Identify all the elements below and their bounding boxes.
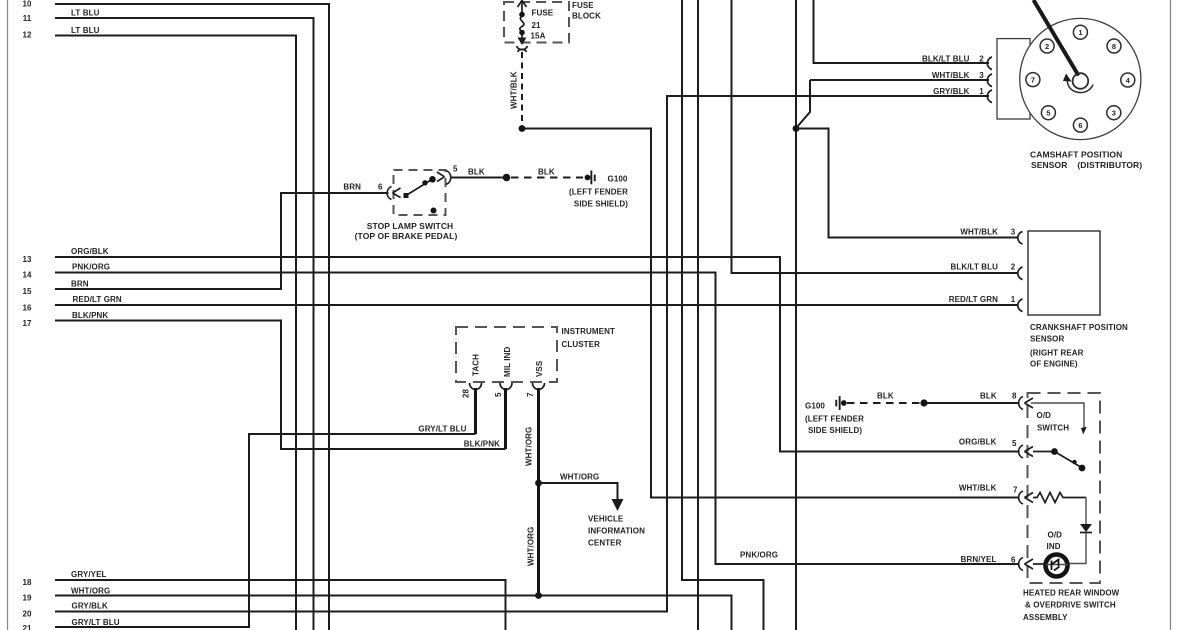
svg-text:OF ENGINE): OF ENGINE)	[1030, 360, 1078, 369]
svg-text:ORG/BLK: ORG/BLK	[71, 247, 109, 256]
svg-text:HEATED REAR WINDOW: HEATED REAR WINDOW	[1023, 589, 1120, 598]
svg-text:GRY/BLK: GRY/BLK	[72, 602, 109, 611]
svg-text:10: 10	[23, 0, 32, 9]
svg-text:O/D: O/D	[1037, 411, 1052, 420]
svg-text:VEHICLE: VEHICLE	[588, 515, 624, 524]
svg-text:13: 13	[23, 255, 32, 264]
svg-text:18: 18	[23, 578, 32, 587]
svg-text:5: 5	[1012, 439, 1017, 448]
svg-text:GRY/LT BLU: GRY/LT BLU	[72, 618, 120, 627]
svg-text:14: 14	[23, 271, 32, 280]
svg-text:5: 5	[494, 392, 503, 397]
svg-text:INSTRUMENT: INSTRUMENT	[562, 327, 615, 336]
svg-text:& OVERDRIVE SWITCH: & OVERDRIVE SWITCH	[1025, 601, 1116, 610]
svg-text:VSS: VSS	[535, 360, 544, 377]
svg-text:5: 5	[453, 165, 458, 174]
svg-text:O/D: O/D	[1048, 531, 1063, 540]
svg-text:17: 17	[23, 319, 32, 328]
svg-text:7: 7	[526, 392, 535, 397]
svg-text:3: 3	[979, 71, 984, 80]
svg-text:GRY/YEL: GRY/YEL	[71, 570, 107, 579]
svg-text:1: 1	[979, 87, 984, 96]
svg-text:FUSE: FUSE	[532, 9, 554, 18]
svg-text:SIDE SHIELD): SIDE SHIELD)	[574, 200, 628, 209]
svg-text:20: 20	[23, 610, 32, 619]
svg-text:15A: 15A	[531, 32, 546, 41]
svg-text:WHT/BLK: WHT/BLK	[510, 71, 519, 109]
svg-text:FUSE: FUSE	[572, 1, 594, 10]
svg-text:GRY/BLK: GRY/BLK	[933, 87, 970, 96]
svg-text:CENTER: CENTER	[588, 539, 622, 548]
svg-text:BLK/PNK: BLK/PNK	[72, 311, 108, 320]
svg-text:7: 7	[1013, 486, 1018, 495]
svg-text:ASSEMBLY: ASSEMBLY	[1023, 613, 1068, 622]
svg-text:RED/LT GRN: RED/LT GRN	[73, 295, 122, 304]
svg-text:CLUSTER: CLUSTER	[562, 340, 601, 349]
svg-text:BLK/PNK: BLK/PNK	[464, 440, 500, 449]
svg-text:WHT/BLK: WHT/BLK	[932, 71, 970, 80]
svg-text:21: 21	[23, 624, 32, 630]
svg-text:CRANKSHAFT POSITION: CRANKSHAFT POSITION	[1030, 323, 1128, 332]
svg-text:WHT/BLK: WHT/BLK	[959, 484, 997, 493]
svg-text:(LEFT FENDER: (LEFT FENDER	[569, 188, 628, 197]
svg-text:PNK/ORG: PNK/ORG	[72, 263, 110, 272]
svg-text:INFORMATION: INFORMATION	[588, 527, 645, 536]
svg-text:SENSOR (DISTRIBUTOR): SENSOR (DISTRIBUTOR)	[1031, 160, 1142, 170]
svg-text:7: 7	[1031, 75, 1035, 84]
svg-text:BRN/YEL: BRN/YEL	[961, 555, 997, 564]
svg-text:MIL IND: MIL IND	[503, 347, 512, 377]
svg-text:2: 2	[1045, 42, 1049, 51]
svg-text:2: 2	[1011, 263, 1016, 272]
svg-text:8: 8	[1012, 392, 1017, 401]
svg-text:3: 3	[1011, 228, 1016, 237]
svg-text:BLK: BLK	[468, 168, 485, 177]
svg-text:6: 6	[1078, 121, 1082, 130]
svg-text:BLK: BLK	[538, 168, 555, 177]
svg-text:LT BLU: LT BLU	[71, 9, 100, 18]
svg-text:11: 11	[23, 14, 32, 23]
svg-text:6: 6	[1011, 556, 1016, 565]
svg-text:LT BLU: LT BLU	[71, 26, 100, 35]
svg-text:BRN: BRN	[71, 279, 89, 288]
svg-text:BLK: BLK	[980, 392, 997, 401]
svg-text:SIDE SHIELD): SIDE SHIELD)	[808, 426, 862, 435]
svg-text:21: 21	[532, 21, 542, 30]
svg-text:15: 15	[23, 287, 32, 296]
svg-text:6: 6	[378, 183, 383, 192]
svg-text:1: 1	[1011, 295, 1016, 304]
svg-text:TACH: TACH	[472, 354, 481, 376]
svg-text:1: 1	[1078, 28, 1082, 37]
svg-text:WHT/ORG: WHT/ORG	[525, 427, 534, 466]
svg-text:PNK/ORG: PNK/ORG	[740, 551, 778, 560]
svg-text:8: 8	[1112, 42, 1116, 51]
svg-text:(TOP OF BRAKE PEDAL): (TOP OF BRAKE PEDAL)	[355, 231, 458, 241]
svg-text:STOP LAMP SWITCH: STOP LAMP SWITCH	[367, 221, 454, 231]
svg-text:12: 12	[23, 31, 32, 40]
svg-text:(LEFT FENDER: (LEFT FENDER	[805, 415, 864, 424]
svg-text:RED/LT GRN: RED/LT GRN	[949, 295, 998, 304]
svg-text:3: 3	[1112, 109, 1116, 118]
svg-text:WHT/ORG: WHT/ORG	[527, 527, 536, 566]
svg-text:BLOCK: BLOCK	[572, 12, 601, 21]
svg-text:G100: G100	[608, 175, 628, 184]
svg-text:16: 16	[23, 304, 32, 313]
svg-text:ORG/BLK: ORG/BLK	[959, 438, 997, 447]
svg-text:WHT/ORG: WHT/ORG	[560, 473, 599, 482]
svg-text:19: 19	[23, 594, 32, 603]
svg-text:WHT/ORG: WHT/ORG	[71, 587, 110, 596]
svg-text:GRY/LT BLU: GRY/LT BLU	[418, 425, 466, 434]
svg-text:BLK/LT BLU: BLK/LT BLU	[922, 55, 970, 64]
svg-text:WHT/BLK: WHT/BLK	[960, 228, 998, 237]
svg-text:IND: IND	[1047, 542, 1061, 551]
svg-text:SWITCH: SWITCH	[1037, 424, 1069, 433]
svg-text:CAMSHAFT POSITION: CAMSHAFT POSITION	[1030, 150, 1122, 160]
svg-text:2: 2	[979, 55, 984, 64]
svg-text:BLK/LT BLU: BLK/LT BLU	[950, 263, 998, 272]
svg-text:BRN: BRN	[343, 183, 361, 192]
svg-text:(RIGHT REAR: (RIGHT REAR	[1030, 349, 1084, 358]
svg-text:BLK: BLK	[877, 392, 894, 401]
svg-text:28: 28	[462, 388, 471, 398]
svg-text:5: 5	[1046, 109, 1050, 118]
svg-text:SENSOR: SENSOR	[1030, 335, 1065, 344]
svg-text:G100: G100	[805, 402, 825, 411]
